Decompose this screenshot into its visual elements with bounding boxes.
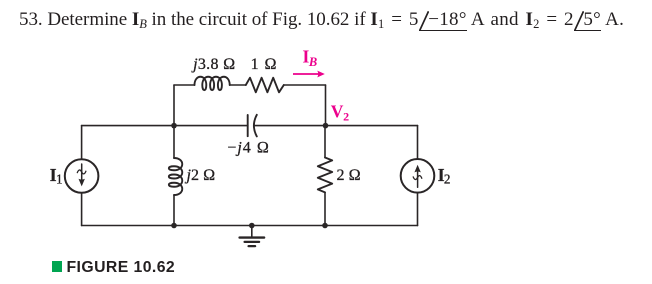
junction dot node V2 [323, 123, 329, 129]
current source I1 arrowhead [79, 179, 85, 187]
wire between L1 and R1 [230, 84, 246, 86]
ground bar 3 [249, 245, 256, 247]
svg-text:I2: I2 [438, 165, 451, 187]
ground stem [251, 226, 253, 238]
capacitor C1 flat plate [247, 115, 249, 136]
figure caption [52, 259, 176, 277]
resistor R1 1 ohm [246, 78, 284, 93]
capacitor C1 curved plate [254, 115, 257, 137]
svg-text:2 Ω: 2 Ω [337, 167, 361, 184]
wire R1 to top-branch right riser [284, 84, 326, 86]
junction dot node A bottom [171, 223, 177, 229]
wire 2 ohm branch upper lead [324, 126, 326, 158]
ground bar 2 [245, 241, 260, 243]
current source I1 arrow (down) [81, 164, 83, 180]
junction dot 2 ohm bottom [322, 223, 328, 229]
inductor L1 j3.8 ohm [195, 77, 230, 90]
svg-text:j2 Ω: j2 Ω [185, 167, 216, 184]
wire top-branch right riser (down to V2) [325, 85, 327, 126]
wire j2 branch lower lead [173, 195, 175, 226]
junction dot node A top [171, 123, 177, 129]
wire top-branch left riser (node A up) [173, 85, 175, 126]
wire bottom rail [82, 225, 418, 227]
svg-text:I1: I1 [50, 165, 63, 187]
wire left vertical lower (I1 to bottom rail) [81, 193, 83, 226]
svg-text:V2: V2 [331, 101, 349, 123]
current source I2 circle [401, 159, 435, 193]
svg-text:1 Ω: 1 Ω [251, 56, 278, 73]
wire top-branch lead into L1 [174, 84, 195, 86]
resistor R2 2 ohm [318, 158, 332, 193]
problem statement text [19, 10, 624, 32]
current arrow IB [293, 73, 320, 75]
ground bar 1 [240, 236, 265, 238]
wire top rail left (node A to left corner) [82, 125, 174, 127]
wire j2 branch upper lead [173, 126, 175, 158]
current source I1 circle [65, 159, 99, 193]
svg-text:−j4 Ω: −j4 Ω [227, 139, 270, 156]
current source I2 arrow (up) [417, 172, 419, 188]
svg-text:j3.8 Ω: j3.8 Ω [191, 56, 236, 73]
inductor L2 j2 ohm [169, 158, 182, 195]
wire left vertical upper (into I1) [81, 126, 83, 160]
wire right vertical lower (I2 to bottom rail) [417, 193, 419, 226]
current source I2 arrowhead [414, 165, 420, 173]
wire top rail right (V2 to right corner) [326, 125, 418, 127]
wire top rail: capacitor right to node V2 [254, 125, 325, 127]
svg-text:IB: IB [303, 47, 318, 70]
wire right vertical upper (into I2) [417, 126, 419, 159]
junction dot ground node [249, 223, 255, 229]
wire top rail: node A to capacitor left plate [174, 125, 248, 127]
wire 2 ohm branch lower lead [324, 192, 326, 225]
